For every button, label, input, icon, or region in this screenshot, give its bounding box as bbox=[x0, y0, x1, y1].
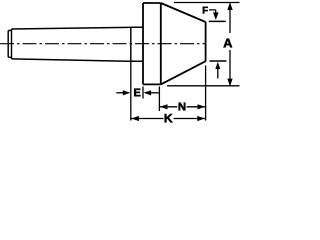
cone point bbox=[161, 3, 206, 84]
dimension N bbox=[160, 103, 205, 111]
extension line F bottom bbox=[210, 60, 227, 62]
dimension K bbox=[131, 114, 205, 122]
extension line tip (N/K right) bbox=[205, 66, 207, 121]
extension line body face (E right) bbox=[142, 87, 144, 99]
taper shank bbox=[12, 27, 131, 61]
extension line A bottom bbox=[167, 85, 240, 87]
dimension E bbox=[116, 89, 159, 97]
body bbox=[143, 3, 161, 84]
tang bbox=[8, 31, 11, 58]
neck bbox=[131, 27, 143, 61]
extension line cone junction (N left) bbox=[158, 87, 160, 112]
extension line F top bbox=[209, 20, 226, 22]
dimension A bbox=[224, 2, 233, 86]
dimension F bottom arrow bbox=[215, 62, 220, 79]
centerline bbox=[0, 43, 206, 45]
extension line A top bbox=[174, 2, 240, 4]
dimension F label and leader bbox=[203, 7, 219, 20]
extension line left (taper end, E/K) bbox=[130, 61, 132, 120]
